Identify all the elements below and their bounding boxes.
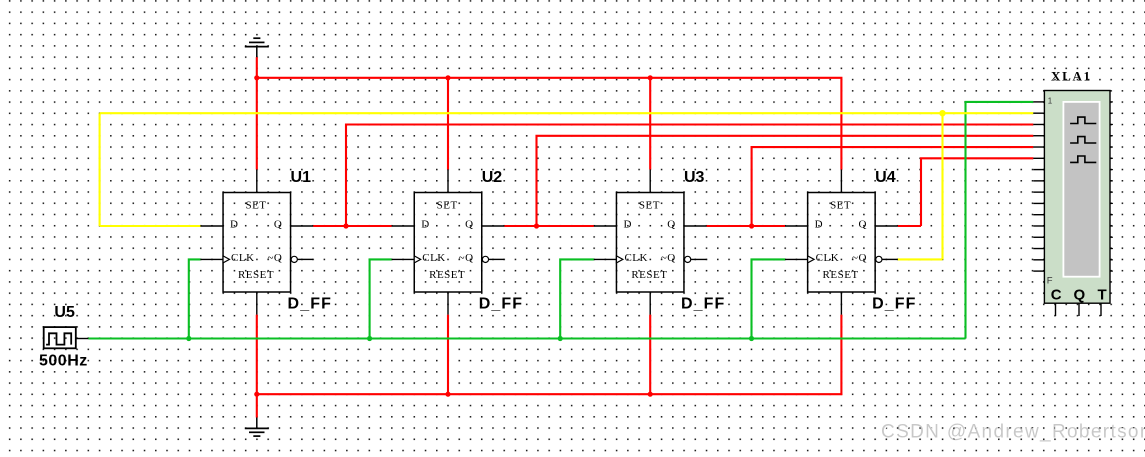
wire: RESET riser to U3 [649, 315, 651, 395]
svg-text:SET: SET [639, 199, 660, 211]
svg-text:SET: SET [437, 199, 458, 211]
svg-text:~Q: ~Q [852, 252, 867, 264]
XLA1 bottom pins C Q T [1056, 303, 1102, 316]
junction: top bus at U3 [648, 75, 653, 80]
svg-text:~Q: ~Q [267, 252, 282, 264]
wire: clock riser to U2 CLK [370, 259, 392, 338]
svg-text:~Q: ~Q [459, 252, 474, 264]
wire: clock riser to U4 CLK [752, 259, 786, 338]
junction: top bus at U1 [254, 75, 259, 80]
wire: U4 Q to riser [898, 225, 921, 227]
junction: U3 Q wire tap [749, 223, 754, 228]
junction: clock bus at U4 [749, 336, 754, 341]
XLA1 input pin stubs (16 channels) [1033, 102, 1044, 271]
svg-text:RESET: RESET [429, 269, 465, 281]
svg-text:U1: U1 [291, 169, 312, 186]
svg-text:XLA1: XLA1 [1051, 69, 1092, 84]
svg-text:CLK: CLK [231, 252, 255, 264]
wire: clock riser to U1 CLK [189, 259, 201, 338]
junction: bottom bus at U3 [648, 392, 653, 397]
wire: bottom RESET bus (horizontal) [257, 315, 842, 395]
wire: SET riser to U1 [256, 78, 258, 170]
svg-text:U5: U5 [54, 304, 75, 321]
svg-text:D: D [230, 219, 238, 231]
wire: RESET riser to U2 [447, 315, 449, 395]
junction: U1 Q wire tap [343, 223, 348, 228]
svg-text:SET: SET [830, 199, 851, 211]
svg-text:CLK: CLK [422, 252, 446, 264]
wire: clock riser to U3 CLK [560, 259, 594, 338]
wire: bottom bus to ground [256, 394, 258, 417]
svg-text:1: 1 [1048, 96, 1053, 105]
wire: U3 Q riser to XLA1 channel 5 [752, 147, 1034, 226]
wire: U4 ~Q to feedback riser [898, 258, 943, 260]
wire: U2 Q riser to XLA1 channel 4 [537, 136, 1034, 226]
D flip-flop U3 [594, 170, 707, 315]
watermark [881, 422, 1145, 444]
clock source U5 (500Hz) [44, 327, 89, 348]
D flip-flop U1 [200, 170, 313, 315]
ground GND2 (bottom) [245, 418, 269, 437]
svg-text:U2: U2 [482, 169, 503, 186]
svg-text:Q: Q [465, 219, 473, 231]
wire: SET riser to U3 [649, 78, 651, 170]
svg-text:U3: U3 [684, 169, 705, 186]
junction: feedback tap [939, 110, 945, 116]
svg-text:Q: Q [1074, 287, 1086, 304]
D flip-flop U2 [392, 170, 505, 315]
wire: U1 Q to U2 D [313, 225, 392, 227]
D flip-flop U4 [785, 170, 898, 315]
svg-text:SET: SET [245, 199, 266, 211]
logic analyzer XLA1 body [1044, 91, 1110, 304]
junction: top bus at U2 [445, 75, 450, 80]
svg-text:~Q: ~Q [661, 252, 676, 264]
svg-text:CSDN @Andrew_Robertson: CSDN @Andrew_Robertson [881, 422, 1145, 443]
wire: top ground to SET bus [256, 57, 258, 78]
wire: clock bus from U5 [88, 337, 965, 339]
wire: feedback riser [941, 113, 943, 259]
svg-text:T: T [1098, 287, 1107, 304]
svg-text:Q: Q [667, 219, 675, 231]
svg-text:D_FF: D_FF [479, 296, 523, 313]
svg-text:D_FF: D_FF [288, 296, 332, 313]
wire: feedback left drop [99, 113, 101, 226]
wire: feedback horizontal to XLA1 channel 2 [100, 112, 1034, 114]
wire: U4 Q riser to XLA1 channel 6 [921, 158, 1033, 226]
junction: bottom bus at U2 [445, 392, 450, 397]
ground GND1 (top) [245, 38, 269, 57]
svg-text:C: C [1051, 287, 1062, 304]
junction: clock bus at U1 [186, 336, 191, 341]
svg-text:D: D [421, 219, 429, 231]
wire: SET riser to U2 [447, 78, 449, 170]
svg-text:F: F [1047, 276, 1053, 287]
wire: clock bus riser to XLA1 channel 1 [966, 102, 1034, 339]
svg-text:D_FF: D_FF [681, 296, 725, 313]
wire: U2 Q to U3 D [504, 225, 593, 227]
wire: feedback to U1 D [100, 225, 201, 227]
svg-text:RESET: RESET [823, 269, 859, 281]
XLA1 right edge nubs [1110, 102, 1113, 271]
junction: clock bus at U2 [367, 336, 372, 341]
wire: U3 Q to U4 D [707, 225, 786, 227]
svg-text:500Hz: 500Hz [39, 352, 88, 369]
junction: U2 Q wire tap [534, 223, 539, 228]
svg-text:RESET: RESET [631, 269, 667, 281]
svg-text:D: D [623, 219, 631, 231]
svg-text:CLK: CLK [624, 252, 648, 264]
svg-text:Q: Q [858, 219, 866, 231]
svg-text:U4: U4 [875, 169, 896, 186]
svg-text:CLK: CLK [816, 252, 840, 264]
svg-text:RESET: RESET [238, 269, 274, 281]
wire: U1 Q riser to XLA1 channel 3 [346, 125, 1033, 227]
svg-text:D_FF: D_FF [872, 296, 916, 313]
junction: clock bus at U3 [558, 336, 563, 341]
svg-text:D: D [815, 219, 823, 231]
wire: top SET bus (horizontal) [257, 78, 842, 170]
svg-text:Q: Q [274, 219, 282, 231]
wire: RESET riser to U1 [256, 315, 258, 395]
junction: bottom bus at U1 [254, 392, 259, 397]
